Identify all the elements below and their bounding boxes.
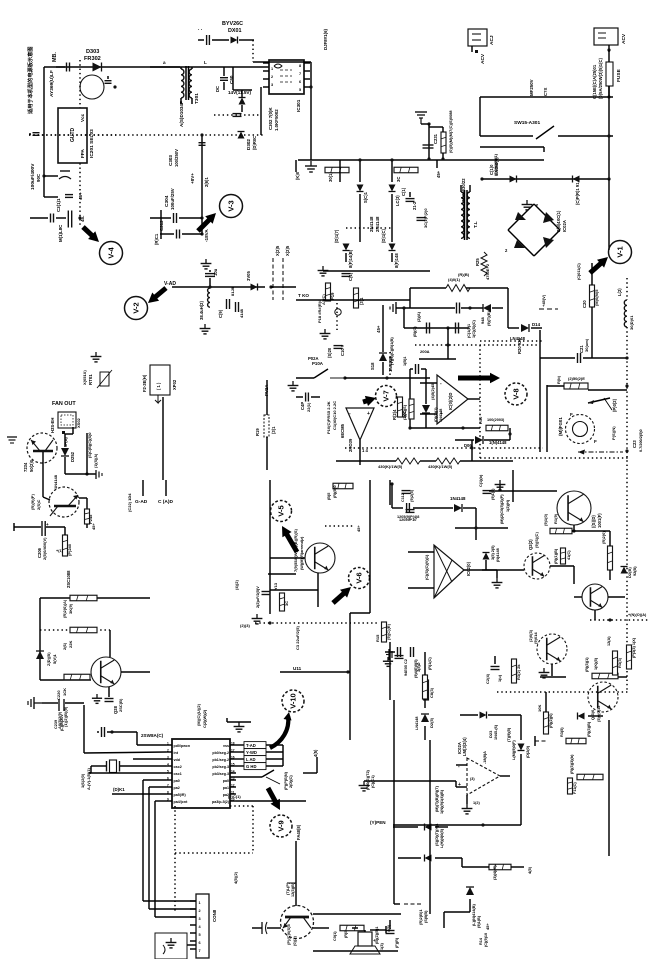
wire: [578, 450, 623, 455]
capacitor C113: [479, 474, 495, 500]
diode D252: [61, 431, 75, 462]
svg-text:(K)0: (K)0: [295, 171, 300, 180]
label a: [163, 60, 207, 65]
svg-text:DC: DC: [215, 86, 220, 92]
connector XS01: [468, 29, 495, 64]
svg-text:RT01: RT01: [88, 374, 93, 385]
svg-text:(2)C(1): (2)C(1): [228, 794, 241, 799]
wire: [346, 227, 392, 229]
label BYV26C DX01: [222, 21, 243, 34]
svg-text:(9)1(5): (9)1(5): [491, 488, 495, 500]
ground box: [155, 933, 187, 959]
svg-text:C(2)(W)(2): C(2)(W)(2): [203, 709, 207, 728]
svg-text:(R)(9)(P): (R)(9)(P): [30, 494, 35, 510]
wire: [345, 377, 430, 379]
transistor QS5025: [281, 906, 314, 947]
label 2SC1088: [66, 570, 71, 588]
svg-text:(2)50(2)E: (2)50(2)E: [568, 376, 585, 381]
wire: [172, 286, 265, 288]
wire: [545, 692, 547, 712]
wire: [424, 726, 426, 740]
wire: [336, 303, 338, 330]
transistor Q23: [574, 584, 608, 610]
svg-text:(R)(2)(6): (R)(2)(6): [549, 713, 553, 728]
net labels: [236, 742, 283, 770]
wire: [214, 114, 261, 116]
wire: [551, 664, 553, 676]
arrow to V-9: [268, 788, 280, 810]
svg-text:V-9: V-9: [277, 820, 286, 831]
svg-text:C(1)(b): C(1)(b): [479, 474, 483, 487]
ground: [28, 697, 42, 709]
svg-text:. .: . .: [198, 26, 203, 32]
svg-text:8: 8: [167, 790, 169, 794]
svg-text:V-3: V-3: [227, 200, 236, 211]
resistor R26B: [62, 627, 97, 650]
svg-text:2HO39: 2HO39: [348, 438, 353, 452]
svg-text:4: 4: [167, 762, 169, 766]
wire: [255, 621, 377, 624]
wire: [389, 480, 391, 505]
svg-text:5: 5: [199, 933, 201, 937]
label R33c: [394, 904, 428, 925]
svg-text:D303: D303: [86, 49, 99, 55]
svg-text:R3(2) 2k: R3(2) 2k: [516, 664, 521, 680]
capacitor C13: [327, 344, 345, 358]
svg-text:1(2)(H): 1(2)(H): [506, 499, 510, 512]
diode D33: [425, 785, 445, 830]
svg-text:(M)0(M)5: (M)0(M)5: [594, 289, 599, 306]
wire: [44, 66, 180, 68]
ground: [318, 266, 329, 276]
svg-text:2: 2: [199, 909, 201, 913]
arrow to V-2: [148, 288, 166, 303]
svg-text:18: 18: [231, 741, 235, 745]
wire: [149, 908, 196, 910]
label C22-1D4: [127, 493, 132, 512]
diode D2: [389, 185, 401, 207]
wire: [389, 352, 391, 378]
svg-text:(Y)PEN: (Y)PEN: [370, 820, 386, 825]
svg-text:8(F)14(B): 8(F)14(B): [348, 249, 353, 268]
svg-text:45+: 45+: [485, 923, 490, 930]
svg-text:(R)(3)(3)(b): (R)(3)(3)(b): [570, 754, 574, 774]
svg-text:1(K)(5): 1(K)(5): [594, 657, 598, 670]
svg-text:(S)0(B): (S)0(B): [424, 910, 428, 923]
svg-text:C231: C231: [433, 133, 438, 144]
resistor C22r: [462, 858, 511, 880]
capacitor C41: [252, 922, 281, 934]
diode D35: [466, 887, 481, 928]
svg-text:V-5: V-5: [277, 505, 286, 516]
resistor R24m: [392, 397, 407, 420]
label 05MM7: [448, 110, 453, 153]
resistor R32: [512, 659, 522, 683]
label MCU top: [196, 703, 207, 728]
wire: [282, 745, 284, 766]
svg-text:T-AD: T-AD: [246, 743, 256, 748]
svg-text:4148: 4148: [239, 308, 244, 318]
svg-text:(R)(B)0: (R)(B)0: [333, 485, 337, 498]
svg-text:16: 16: [231, 755, 235, 759]
wire: [271, 286, 296, 288]
svg-text:(9)1(B): (9)1(B): [477, 915, 481, 928]
ground: [91, 352, 102, 362]
diode D25: [415, 714, 434, 730]
junction: [385, 376, 388, 379]
junction: [78, 216, 81, 219]
label -18VA: [204, 229, 209, 242]
svg-text:F2-3E(H): F2-3E(H): [142, 374, 147, 392]
resistor Y13: [273, 582, 289, 611]
svg-text:V-AD: V-AD: [164, 281, 176, 287]
capacitor C12: [342, 272, 354, 281]
wire: [295, 160, 297, 172]
svg-text:Y13: Y13: [273, 582, 278, 590]
label R-C: [517, 337, 522, 354]
label 8614: [348, 249, 399, 268]
svg-text:+45(V): +45(V): [541, 294, 546, 307]
svg-text:(P)0(2): (P)0(2): [612, 398, 617, 412]
capacitor C303: [199, 143, 206, 146]
svg-text:2(6): 2(6): [62, 642, 67, 650]
wire: [150, 66, 269, 68]
svg-text:C303: C303: [168, 155, 173, 166]
wire: [309, 62, 312, 160]
svg-text:C(9): C(9): [218, 309, 223, 318]
svg-text:C2(4): C2(4): [485, 673, 490, 684]
wire: [508, 288, 519, 328]
svg-text:3(5) 2(5): 3(5) 2(5): [491, 545, 495, 560]
resistor R19: [255, 415, 276, 437]
label C303: [168, 149, 179, 167]
arrow to V-1: [590, 257, 608, 273]
wire: [233, 67, 252, 90]
wire: [398, 857, 462, 859]
label R14: [479, 933, 488, 947]
svg-text:BYV26C: BYV26C: [222, 21, 243, 27]
svg-text:V-8: V-8: [512, 388, 521, 399]
ground: [495, 480, 506, 490]
svg-text:7: 7: [199, 949, 201, 953]
svg-text:M(1)L8C: M(1)L8C: [58, 224, 63, 242]
svg-text:P10A: P10A: [312, 361, 324, 366]
label 2SW8AC: [141, 733, 164, 738]
svg-text:C3(1)1: C3(1)1: [56, 198, 61, 212]
svg-text:2SC(B): 2SC(B): [118, 698, 123, 712]
resistor R26A: [62, 595, 97, 618]
svg-text:pa3/p-5(2): pa3/p-5(2): [212, 800, 230, 804]
capacitor C24: [485, 656, 502, 684]
svg-text:IC(0)(2)D: IC(0)(2)D: [448, 393, 453, 410]
svg-text:5: 5: [299, 88, 301, 92]
label SCBC: [88, 432, 92, 458]
svg-text:R14: R14: [479, 937, 483, 945]
resistor R1C: [417, 657, 432, 699]
wire: [402, 306, 405, 328]
svg-text:U11: U11: [293, 666, 302, 671]
wire: [360, 194, 392, 242]
svg-text:V-1: V-1: [616, 246, 625, 257]
capacitor C10u: [205, 268, 218, 287]
resistor 430K-2: [436, 458, 513, 464]
label T1: [461, 178, 479, 228]
capacitor C16: [399, 510, 416, 522]
svg-text:2SW8A(C): 2SW8A(C): [141, 733, 164, 738]
wire: [112, 793, 166, 795]
wire: [155, 916, 196, 918]
svg-text:V-2: V-2: [132, 302, 141, 313]
wire: [29, 134, 264, 136]
arrow to V-3: [198, 213, 216, 231]
ground: [539, 668, 550, 678]
wire: [79, 498, 87, 509]
svg-text:IC301: IC301: [296, 99, 301, 112]
resistor R19b: [543, 513, 572, 533]
svg-text:2(N)4XC(1): 2(N)4XC(1): [556, 210, 561, 232]
wire: [65, 427, 73, 474]
svg-text:pa1: pa1: [223, 786, 229, 790]
svg-text:(9)2(5): (9)2(5): [409, 489, 414, 502]
svg-text:30(1): 30(1): [328, 172, 333, 182]
junction: [208, 285, 211, 288]
svg-text:6: 6: [199, 941, 201, 945]
label +5b: [386, 924, 391, 933]
zener ZD5V1: [36, 651, 57, 666]
transformer T1: [461, 185, 470, 240]
capacitor C16a: [402, 489, 415, 502]
svg-text:(S)20: (S)20: [327, 347, 332, 358]
resistor P19: [321, 283, 335, 305]
wire: [143, 780, 166, 901]
svg-text:C220: C220: [56, 690, 61, 700]
resistor P245: [85, 509, 94, 524]
diode D23: [460, 712, 521, 741]
capacitor C208: [198, 35, 209, 45]
capacitor C21: [540, 338, 627, 363]
label 45: [80, 216, 85, 222]
svg-text:(C)(9)10: (C)(9)10: [484, 933, 488, 947]
svg-text:2(S)C: 2(S)C: [36, 499, 41, 510]
svg-text:(2)(A): (2)(A): [417, 311, 421, 322]
wire: [480, 340, 542, 342]
label +5s: [485, 923, 490, 930]
svg-text:R(2)4: R(2)4: [392, 409, 397, 420]
svg-text:A(S)D1034F: A(S)D1034F: [179, 101, 184, 127]
svg-text:(M)(T)(B)(R)(T): (M)(T)(B)(R)(T): [435, 785, 439, 812]
label ASD1034F: [179, 101, 184, 127]
diode D301b: [573, 176, 581, 206]
svg-text:3K(9): 3K(9): [68, 603, 73, 614]
svg-text:C(1)0: C(1)0: [489, 164, 494, 175]
ground: [200, 324, 211, 334]
wire: [252, 40, 254, 62]
svg-text:1001(F): 1001(F): [597, 513, 602, 528]
junction: [607, 95, 610, 98]
label MF250V: [529, 79, 548, 96]
switch POWER: [230, 770, 293, 790]
label C239: [57, 706, 68, 729]
junction: [607, 134, 610, 137]
label T301: [194, 93, 200, 104]
wire: [269, 480, 271, 614]
label +45: [541, 294, 546, 307]
svg-text:osc1: osc1: [174, 772, 182, 776]
svg-text:ACV: ACV: [480, 53, 486, 64]
wire: [143, 900, 196, 902]
transistor Q201: [80, 75, 104, 99]
svg-text:1(3): 1(3): [380, 943, 384, 950]
svg-text:(0)(5)(M)(M)7(C)(S)0088: (0)(5)(M)(M)7(C)(S)0088: [448, 110, 453, 153]
connector XS02: [50, 412, 81, 433]
label +5c: [233, 871, 238, 884]
svg-text:(M)|FG01: (M)|FG01: [558, 417, 563, 436]
svg-text:(3): (3): [470, 777, 475, 781]
wire: [420, 383, 480, 414]
svg-text:pb3/seg.3: pb3/seg.3: [212, 772, 229, 776]
svg-text:S18: S18: [370, 362, 375, 370]
label bridge: [556, 210, 567, 232]
wire: [540, 676, 627, 678]
svg-text:3V05: 3V05: [246, 271, 251, 281]
svg-text:C10 #: C10 #: [340, 344, 345, 356]
label FA488: [296, 824, 301, 840]
label C304: [164, 188, 175, 210]
svg-text:C (A)D: C (A)D: [158, 499, 173, 505]
label 16.1M: [80, 768, 91, 790]
wire: [626, 278, 628, 692]
svg-text:L(H)(4)0(5): L(H)(4)0(5): [440, 828, 444, 848]
svg-text:V-6: V-6: [355, 572, 364, 583]
wire: [480, 457, 628, 459]
wire: [404, 326, 469, 329]
wire: [160, 210, 162, 239]
diode D20: [507, 727, 530, 760]
svg-text:ACV: ACV: [621, 33, 627, 44]
svg-text:2N4148: 2N4148: [375, 216, 380, 232]
svg-text:+(1): +(1): [56, 549, 64, 553]
wire: [608, 179, 610, 250]
opamp IC-D: [430, 375, 468, 424]
capacitor C17: [386, 649, 408, 676]
svg-text:50(2)0: 50(2)0: [29, 459, 34, 472]
ground: [288, 381, 299, 391]
svg-text:D252: D252: [70, 451, 75, 462]
svg-text:21-2: 21-2: [412, 201, 417, 210]
svg-text:45+: 45+: [376, 325, 381, 333]
wire: [390, 482, 453, 508]
svg-text:(R)1(C): (R)1(C): [428, 657, 432, 670]
capacitor C112: [397, 493, 419, 519]
svg-text:F: F: [570, 412, 573, 417]
junction: [608, 618, 611, 621]
svg-text:pb1/seg.2: pb1/seg.2: [212, 758, 229, 762]
svg-text:7(9)55A(W)(R)(B)(R)(S): 7(9)55A(W)(R)(B)(R)(S): [293, 528, 298, 572]
wire: [539, 308, 558, 310]
capacitor C2x: [417, 208, 429, 228]
label 2: [505, 248, 508, 253]
wire: [40, 597, 150, 599]
svg-text:(P)(C)0(S)5: (P)(C)0(S)5: [286, 924, 291, 945]
svg-text:C0(1): C0(1): [333, 931, 337, 941]
wire: [89, 766, 166, 773]
svg-text:FPA: FPA: [80, 148, 85, 158]
svg-text:2(6)1: 2(6)1: [204, 177, 209, 187]
svg-text:R25: R25: [475, 258, 480, 266]
svg-text:(0)5A/250W(3)(5)1(C): (0)5A/250W(3)(5)1(C): [598, 57, 603, 99]
diode D303: [93, 63, 102, 72]
svg-text:10K: 10K: [537, 705, 542, 712]
svg-text:1(C)(S)(C): 1(C)(S)(C): [472, 320, 476, 338]
svg-text:D2(B): D2(B): [627, 567, 632, 578]
svg-text:C8(3): C8(3): [429, 687, 434, 698]
svg-text:IC201 SEL03: IC201 SEL03: [89, 129, 95, 158]
svg-text:(R)(3)(B): (R)(3)(B): [587, 721, 591, 737]
svg-text:(R)5: (R)5: [344, 931, 348, 938]
node V-4: [100, 242, 123, 265]
node V-7: [376, 386, 397, 407]
svg-text:R3(5): R3(5): [560, 727, 564, 737]
wire: [346, 253, 392, 262]
wire: [252, 806, 254, 853]
arrow to V-4: [83, 227, 99, 242]
svg-text:(9)014: (9)014: [533, 632, 538, 644]
svg-text:1(N)(9)1(4)(B): 1(N)(9)1(4)(B): [440, 789, 444, 814]
node V-1: [609, 241, 632, 264]
label IC301: [268, 99, 301, 131]
ground: [7, 437, 17, 443]
svg-text:14: 14: [231, 769, 235, 773]
diode DX01: [212, 37, 254, 44]
svg-text:FA48(8): FA48(8): [296, 824, 301, 840]
svg-text:1.0KF5002: 1.0KF5002: [274, 109, 279, 131]
capacitor C310: [233, 114, 242, 117]
capacitor C203: [29, 133, 40, 136]
svg-text:6: 6: [299, 80, 301, 84]
label OPEN: [370, 820, 386, 825]
svg-text:(R)C1: (R)C1: [154, 233, 159, 245]
svg-text:1: 1: [199, 901, 201, 905]
svg-text:(9)(C)(R): (9)(C)(R): [386, 623, 391, 640]
svg-text:1N4148: 1N4148: [450, 496, 466, 501]
wire: [479, 97, 481, 136]
svg-text:C20: C20: [582, 300, 587, 308]
wire: [133, 758, 166, 760]
wire: [500, 775, 510, 777]
svg-text:+8V+: +8V+: [190, 173, 195, 184]
resistor R3: [446, 272, 470, 292]
capacitor C33b: [380, 920, 399, 950]
svg-text:45+: 45+: [78, 192, 83, 200]
svg-text:-18VA: -18VA: [204, 229, 209, 242]
capacitor C1x: [401, 187, 417, 210]
svg-text:(S)(D)(T)(H)1: (S)(D)(T)(H)1: [435, 823, 439, 846]
wire: [121, 671, 150, 673]
svg-text:8(F)148: 8(F)148: [394, 253, 399, 268]
wire: [608, 86, 610, 179]
capacitor C205: [65, 192, 83, 200]
node V-9: [270, 815, 292, 837]
svg-text:1N4148: 1N4148: [53, 474, 58, 489]
capacitor C206b: [42, 521, 49, 536]
svg-text:12(A): 12(A): [607, 636, 611, 646]
svg-text:4(5): 4(5): [527, 866, 532, 874]
label C23: [632, 429, 643, 452]
svg-text:41(C): 41(C): [567, 550, 571, 560]
wire: [424, 652, 426, 708]
wire: [479, 345, 481, 458]
svg-text:4750E+2: 4750E+2: [485, 263, 490, 280]
